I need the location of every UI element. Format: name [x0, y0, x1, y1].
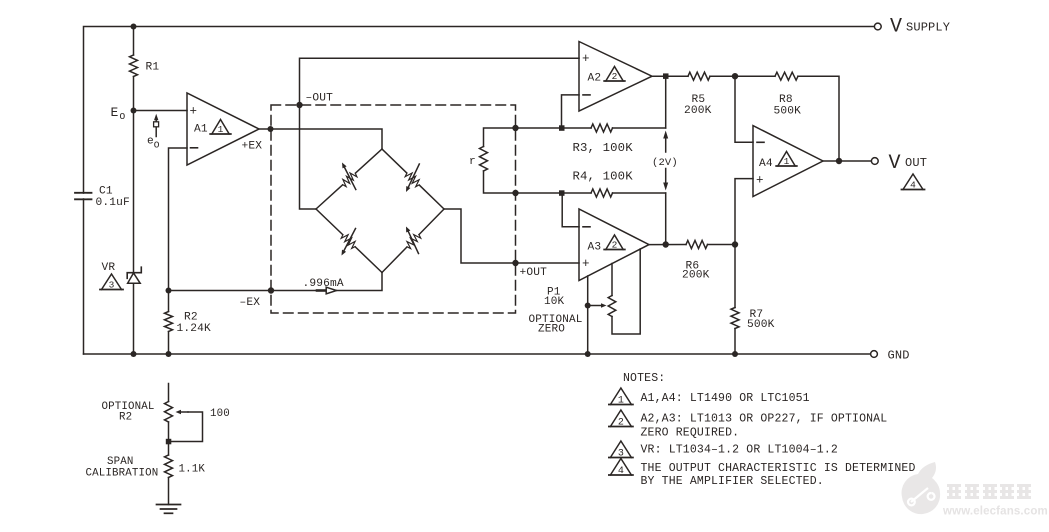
wire A3 minus to R4: [562, 193, 579, 227]
svg-text:+: +: [190, 105, 198, 119]
resistor R7: [734, 245, 736, 308]
op-amp A1: [187, 93, 259, 165]
watermark logo: [902, 462, 941, 514]
node +OUT: [512, 260, 518, 266]
terminal V SUPPLY: [874, 23, 881, 30]
wire R4 right to A3 out node: [665, 193, 667, 245]
svg-text:A1,A4: LT1490 OR LTC1051: A1,A4: LT1490 OR LTC1051: [641, 392, 810, 405]
op-amp A3: [579, 209, 649, 281]
note marker 4: [610, 459, 631, 476]
wire A2 out down to R3: [665, 76, 667, 128]
resistor 1.1K: [165, 455, 173, 478]
svg-text:1.24K: 1.24K: [177, 323, 211, 335]
svg-text:R3, 100K: R3, 100K: [573, 141, 634, 155]
svg-text:500K: 500K: [774, 106, 802, 118]
svg-text:+: +: [582, 257, 590, 271]
svg-text:www.elecfans.com: www.elecfans.com: [942, 506, 1048, 518]
dashed bridge enclosure: [271, 105, 516, 313]
note marker 1: [610, 388, 631, 405]
terminal GND: [871, 351, 878, 358]
svg-text:VR: VR: [102, 262, 116, 274]
resistor R3: [516, 127, 592, 129]
resistor R8: [775, 72, 798, 80]
strain gauge top-left: [343, 173, 357, 187]
annotation (2V): [665, 139, 667, 153]
annotation arrow e_o: [155, 120, 157, 136]
svg-text:R2: R2: [119, 412, 132, 424]
capacitor C1: [75, 192, 92, 194]
strain gauge bottom-right: [407, 235, 421, 249]
svg-text:–EX: –EX: [240, 297, 261, 309]
zener diode VR: [133, 111, 135, 273]
svg-text:R2: R2: [184, 312, 198, 324]
svg-text:+EX: +EX: [242, 140, 263, 152]
wire GND rail: [84, 353, 871, 355]
op-amp A2: [579, 42, 652, 112]
svg-text:ZERO REQUIRED.: ZERO REQUIRED.: [641, 426, 740, 439]
bridge diamond wires: [316, 185, 343, 209]
node A2 output: [652, 75, 688, 77]
svg-text:1: 1: [618, 395, 624, 406]
resistor R6: [686, 241, 708, 249]
node E_O: [131, 108, 137, 114]
wire -OUT to A2 +: [300, 58, 580, 209]
svg-text:1: 1: [784, 156, 790, 167]
svg-text:SPAN: SPAN: [107, 456, 134, 468]
wire A4 output: [823, 160, 871, 162]
node -EX box edge: [268, 287, 274, 293]
svg-text:0.1uF: 0.1uF: [96, 197, 130, 209]
wire A1 minus feedback: [169, 148, 188, 291]
wire A4 minus: [735, 76, 753, 142]
resistor R5: [688, 72, 710, 80]
svg-text:A4: A4: [759, 158, 773, 170]
node r bottom: [512, 190, 518, 196]
svg-text:A2: A2: [588, 73, 602, 85]
svg-text:+: +: [756, 174, 764, 188]
svg-text:OUT: OUT: [905, 156, 927, 170]
node r top: [512, 125, 518, 131]
svg-text:O: O: [154, 140, 160, 151]
svg-text:+: +: [582, 52, 590, 66]
svg-text:(2V): (2V): [652, 157, 678, 169]
wire bridge right to +OUT: [444, 209, 579, 263]
wire A2 minus to R3: [562, 95, 580, 128]
terminal V OUT: [871, 158, 878, 165]
node -OUT: [296, 102, 302, 108]
resistor R2: [168, 291, 170, 312]
svg-text:V: V: [889, 152, 901, 175]
wire A4 plus: [735, 179, 753, 245]
note marker 3: [610, 441, 631, 458]
svg-text:THE OUTPUT CHARACTERISTIC IS D: THE OUTPUT CHARACTERISTIC IS DETERMINED: [641, 462, 916, 475]
op-amp A4: [753, 126, 823, 197]
svg-text:E: E: [111, 105, 119, 120]
svg-text:4: 4: [618, 466, 624, 477]
svg-text:A2,A3: LT1013 OR OP227, IF OPT: A2,A3: LT1013 OR OP227, IF OPTIONAL: [641, 413, 888, 426]
svg-text:1.1K: 1.1K: [179, 463, 206, 475]
svg-text:R1: R1: [146, 61, 160, 73]
node R2 gnd: [166, 351, 172, 357]
svg-text:V: V: [890, 16, 902, 39]
svg-text:ZERO: ZERO: [538, 324, 565, 336]
strain gauge top-right: [405, 173, 419, 187]
resistor R4: [516, 192, 592, 194]
svg-text:R4, 100K: R4, 100K: [573, 169, 634, 183]
svg-text:100: 100: [210, 408, 230, 420]
wire A1 output +EX: [259, 129, 382, 149]
svg-text:GND: GND: [888, 348, 910, 362]
wire -EX row: [169, 273, 383, 291]
svg-text:200K: 200K: [684, 105, 712, 117]
svg-text:A3: A3: [588, 241, 602, 253]
wire R1 branch: [133, 27, 135, 56]
svg-text:CALIBRATION: CALIBRATION: [86, 468, 159, 480]
ground symbol: [157, 504, 181, 506]
node top rail / R1 junction: [131, 24, 137, 30]
resistor r: [484, 128, 516, 147]
svg-text:+OUT: +OUT: [520, 267, 548, 279]
node +EX at box edge: [268, 126, 274, 132]
potentiometer P1 optional zero: [587, 276, 589, 354]
node R6/R7/A4+: [732, 241, 738, 247]
node A3 output: [649, 244, 686, 246]
svg-text:4: 4: [910, 179, 916, 190]
strain gauge bottom-left: [341, 235, 355, 249]
svg-text:2: 2: [612, 71, 618, 82]
note marker 2: [610, 410, 631, 427]
svg-text:r: r: [469, 156, 476, 168]
svg-text:2: 2: [612, 239, 618, 250]
wire V supply top rail: [84, 27, 875, 355]
svg-text:500K: 500K: [747, 319, 775, 331]
svg-text:R8: R8: [779, 94, 793, 106]
svg-text:–OUT: –OUT: [306, 93, 334, 105]
svg-text:3: 3: [109, 279, 115, 290]
node R5/R8/A4-: [732, 73, 738, 79]
svg-text:VR: LT1034–1.2 OR LT1004–1.2: VR: LT1034–1.2 OR LT1004–1.2: [641, 444, 838, 457]
svg-text:SUPPLY: SUPPLY: [906, 21, 950, 35]
svg-text:NOTES:: NOTES:: [623, 372, 665, 385]
svg-text:200K: 200K: [682, 270, 710, 282]
svg-text:2: 2: [618, 417, 624, 428]
svg-text:BY THE AMPLIFIER SELECTED.: BY THE AMPLIFIER SELECTED.: [641, 475, 824, 488]
notes text: [623, 372, 916, 488]
wire E_O to A1 +: [134, 110, 188, 112]
potentiometer optional R2 span: [168, 384, 170, 402]
svg-text:.996mA: .996mA: [303, 278, 344, 290]
resistor R1: [130, 55, 138, 77]
svg-text:10K: 10K: [544, 296, 565, 308]
svg-text:C1: C1: [99, 185, 113, 197]
svg-text:A1: A1: [194, 124, 208, 136]
svg-text:1: 1: [218, 124, 224, 135]
node -EX junction: [166, 288, 172, 294]
svg-text:O: O: [120, 111, 126, 122]
